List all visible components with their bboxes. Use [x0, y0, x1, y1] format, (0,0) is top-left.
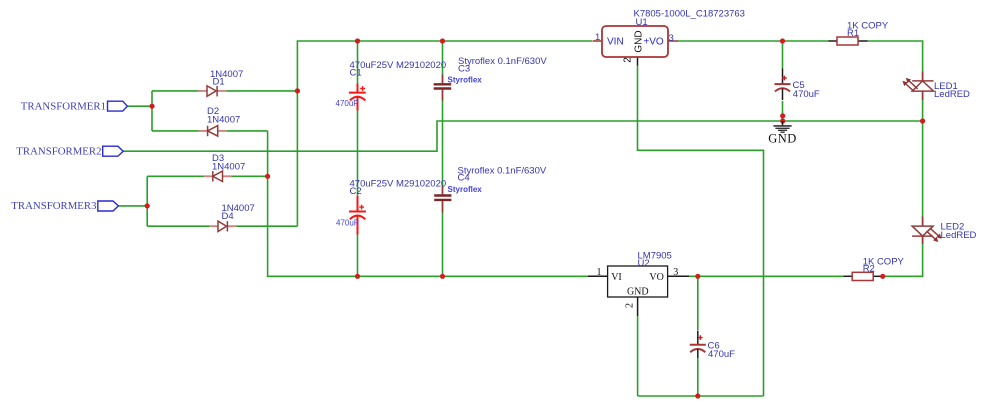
ground symbol GND: [768, 121, 797, 146]
svg-text:470uF: 470uF: [708, 349, 735, 360]
junction node C5 top: [780, 38, 785, 43]
svg-text:TRANSFORMER2: TRANSFORMER2: [16, 145, 101, 157]
port TRANSFORMER1: [21, 100, 128, 112]
wire U2 GND pin down: [637, 316, 639, 396]
svg-text:3: 3: [669, 33, 674, 44]
svg-text:LedRED: LedRED: [934, 89, 970, 100]
junction node U2 output: [695, 274, 700, 279]
regulator U2 LM7905: [588, 266, 689, 316]
svg-text:U1: U1: [636, 17, 648, 28]
svg-text:1N4007: 1N4007: [212, 161, 245, 172]
svg-text:C1: C1: [350, 67, 362, 78]
wire GND rail to LED2: [922, 121, 924, 217]
svg-text:Styroflex: Styroflex: [448, 185, 483, 194]
wire D2 anode to negative vertical: [227, 130, 268, 132]
wire C1 C2 chain verticals: [357, 41, 359, 276]
svg-text:R2: R2: [863, 264, 875, 275]
wire vertical split at transformer3: [146, 176, 148, 226]
resistor R2: [844, 272, 885, 280]
capacitor C5 polarized: [775, 69, 791, 101]
wire LED1 bottom to GND rail: [922, 100, 924, 121]
junction node D3 output: [265, 174, 270, 179]
svg-text:Styroflex: Styroflex: [448, 75, 483, 84]
diode D3: [204, 171, 232, 182]
junction node R2 right: [880, 274, 885, 279]
wire C6 vertical bottom: [697, 358, 699, 397]
capacitor C2 polarized: [349, 196, 366, 235]
svg-text:2: 2: [625, 303, 636, 308]
wire C5 vertical top: [782, 41, 784, 69]
wire U1 output to R1: [678, 40, 829, 42]
svg-text:VIN: VIN: [607, 37, 624, 48]
junction node C4 bottom: [440, 274, 445, 279]
svg-text:Styroflex 0.1nF/630V: Styroflex 0.1nF/630V: [458, 165, 547, 176]
junction node LED chain at GND rail: [920, 118, 925, 123]
svg-text:470uF: 470uF: [793, 89, 820, 100]
wire D1 cathode to node: [226, 90, 298, 92]
wire T2 port jog up to GND rail: [123, 121, 923, 151]
wire C6 vertical top: [697, 276, 699, 330]
resistor R1: [829, 37, 868, 45]
diode D4: [209, 221, 236, 231]
junction node C6 bottom: [695, 393, 700, 398]
svg-text:TRANSFORMER1: TRANSFORMER1: [21, 100, 106, 112]
svg-text:+VO: +VO: [643, 37, 664, 48]
svg-text:D1: D1: [213, 77, 225, 88]
wire vertical split at transformer1: [151, 91, 153, 131]
svg-text:VI: VI: [611, 272, 622, 283]
capacitor C6 polarized: [690, 331, 706, 358]
svg-text:C2: C2: [350, 186, 362, 197]
svg-text:470uF: 470uF: [336, 99, 359, 108]
svg-text:470uF25V M29102020: 470uF25V M29102020: [350, 60, 447, 71]
capacitor C4 styroflex: [434, 186, 451, 213]
port TRANSFORMER3: [11, 200, 118, 212]
diode D2: [199, 126, 227, 137]
wire top rail from D1/D4 node to U1 VIN: [297, 41, 592, 226]
wire D2 cathode: [152, 130, 199, 132]
wire bottom rail: [638, 395, 764, 397]
wire D1 anode: [152, 90, 198, 92]
wire D4 anode: [147, 225, 209, 227]
svg-text:2: 2: [623, 57, 634, 63]
wire negative vertical bus to bottom rail: [268, 131, 588, 276]
wire T3 port to split node: [118, 205, 148, 207]
svg-text:470uF: 470uF: [336, 219, 359, 228]
svg-text:1: 1: [595, 32, 600, 43]
wire U2 output to R2: [689, 275, 844, 277]
wire T1 port to split node: [127, 105, 153, 107]
capacitor C1 polarized: [349, 84, 366, 111]
LED1 LedRED: [903, 72, 934, 101]
wire C3 C4 chain verticals: [442, 41, 444, 276]
wire LED2 cathode down and to R2: [884, 244, 923, 276]
svg-text:U2: U2: [638, 258, 650, 269]
svg-text:470uF25V M29102020: 470uF25V M29102020: [350, 178, 447, 189]
wire D3 anode to negative vertical: [231, 175, 269, 177]
junction node C3 top: [440, 38, 445, 43]
svg-text:3: 3: [673, 267, 678, 278]
port TRANSFORMER2: [16, 145, 123, 157]
gnd rail double junction at C5: [780, 113, 785, 123]
svg-text:GND: GND: [627, 287, 649, 298]
svg-text:1: 1: [597, 267, 602, 278]
svg-text:C4: C4: [458, 173, 470, 184]
regulator U1 K7805: [593, 26, 679, 66]
svg-text:TRANSFORMER3: TRANSFORMER3: [11, 200, 96, 212]
wire D3 cathode: [147, 175, 204, 177]
svg-text:Styroflex 0.1nF/630V: Styroflex 0.1nF/630V: [458, 56, 547, 67]
wire U1 GND pin down jog to bottom rail: [638, 66, 764, 397]
svg-text:GND: GND: [634, 30, 645, 52]
wire R1 to LED1 corner: [868, 41, 923, 72]
junction node D1 output: [295, 88, 300, 93]
svg-text:GND: GND: [768, 132, 797, 146]
svg-text:VO: VO: [649, 272, 663, 283]
LED2 LedRED: [912, 217, 942, 245]
svg-text:LedRED: LedRED: [941, 230, 977, 241]
junction node C2 bottom: [355, 274, 360, 279]
svg-text:K7805-1000L_C18723763: K7805-1000L_C18723763: [634, 9, 745, 20]
junction node at transformer3: [145, 203, 150, 208]
svg-text:R1: R1: [847, 28, 859, 39]
svg-text:1N4007: 1N4007: [207, 114, 240, 125]
junction node at transformer1: [149, 104, 154, 109]
wire D4 cathode to node: [236, 225, 297, 227]
svg-text:C3: C3: [458, 63, 470, 74]
capacitor C3 styroflex: [434, 75, 452, 101]
junction node C1 top: [355, 38, 360, 43]
svg-text:D4: D4: [222, 211, 234, 222]
diode D1: [198, 86, 227, 97]
wire C5 vertical bottom: [782, 101, 784, 121]
